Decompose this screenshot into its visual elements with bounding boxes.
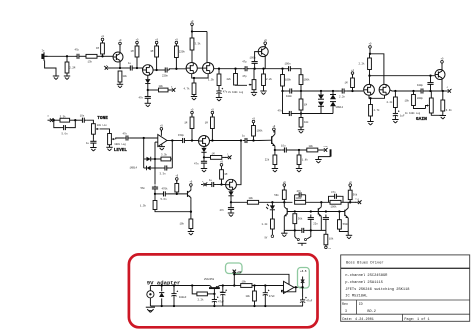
wire — [253, 136, 255, 141]
svg-text:4.7k: 4.7k — [184, 88, 191, 91]
svg-text:47uF: 47uF — [218, 301, 225, 304]
wire — [271, 229, 273, 235]
svg-text:10u: 10u — [281, 145, 286, 148]
resistor 3.3k — [161, 157, 171, 161]
wire — [283, 199, 285, 202]
wire — [81, 55, 86, 57]
wire — [310, 223, 312, 231]
wire — [302, 304, 304, 306]
capacitor 10u — [282, 147, 289, 152]
resistor 100k — [281, 75, 285, 87]
junction — [310, 229, 312, 231]
capacitor 100n — [288, 88, 294, 93]
svg-text:10k Lin: 10k Lin — [97, 124, 108, 127]
wire Q15 collector — [320, 202, 322, 207]
diode 1N914 — [330, 102, 336, 107]
junction — [155, 69, 157, 71]
wire — [191, 114, 193, 117]
svg-text:10k: 10k — [405, 100, 410, 103]
capacitor 3.3n — [163, 165, 170, 170]
resistor 56k — [282, 190, 286, 199]
wire — [235, 69, 237, 74]
wire — [154, 191, 156, 194]
svg-text:1M: 1M — [205, 122, 209, 125]
junction — [264, 305, 266, 307]
junction — [253, 305, 255, 307]
svg-text:2.2k: 2.2k — [266, 78, 273, 81]
wire — [192, 286, 197, 294]
resistor 1M — [211, 156, 222, 160]
svg-text:10k: 10k — [329, 238, 334, 241]
wire — [155, 193, 161, 195]
wire Q14 emitter — [283, 216, 285, 230]
svg-text:1M: 1M — [131, 50, 135, 53]
wire — [254, 286, 256, 292]
svg-text:56n: 56n — [141, 187, 146, 190]
wire — [92, 134, 94, 140]
wire +9 rail — [191, 27, 193, 31]
transistor Q14 — [284, 207, 287, 217]
+9V supply — [273, 125, 276, 132]
wire — [92, 145, 94, 148]
wire Q15 emitter — [320, 216, 322, 230]
wire — [119, 82, 121, 84]
+9V supply — [191, 108, 194, 115]
svg-text:10k: 10k — [123, 75, 128, 78]
wire — [176, 180, 178, 183]
wire — [413, 91, 415, 95]
svg-text:47p: 47p — [75, 49, 80, 52]
capacitor 56n — [152, 186, 158, 191]
transistor Q15 — [318, 207, 321, 217]
junction — [74, 119, 76, 121]
JFET Q9 switch — [199, 136, 210, 147]
resistor 10k — [241, 284, 252, 288]
wire — [298, 150, 300, 155]
wire — [221, 168, 223, 170]
svg-text:100k: 100k — [331, 205, 338, 208]
junction — [213, 293, 215, 295]
+9V supply — [190, 181, 193, 188]
wire — [154, 194, 156, 201]
wire feedback column — [171, 141, 173, 169]
svg-text:13k: 13k — [88, 61, 93, 64]
resistor 3.3k — [60, 118, 70, 122]
svg-text:JFETs 2SK246 switching 2SK118: JFETs 2SK246 switching 2SK118 — [345, 287, 409, 292]
wire 1M to drain — [156, 57, 158, 70]
resistor 2.2k — [394, 97, 398, 108]
ground — [201, 169, 207, 173]
svg-text:1M: 1M — [304, 104, 308, 107]
junction — [220, 183, 222, 185]
wire — [110, 67, 120, 69]
wire pot bottom — [431, 113, 443, 115]
junction — [349, 201, 351, 203]
junction — [301, 286, 303, 288]
potentiometer GAIN — [426, 98, 433, 113]
wire — [135, 67, 138, 69]
junction — [351, 90, 353, 92]
capacitor 1u — [209, 182, 216, 187]
+4.5V green highlight — [298, 268, 310, 289]
junction — [429, 75, 431, 77]
wire — [222, 286, 224, 291]
wire to Q7 drain — [370, 54, 384, 85]
junction — [300, 90, 302, 92]
junction — [191, 139, 193, 141]
svg-text:220k: 220k — [179, 51, 186, 54]
capacitor 47n — [330, 194, 341, 199]
wire to pot wiper — [236, 84, 248, 86]
resistor 2.2k — [368, 58, 372, 70]
resistor 1M — [135, 46, 139, 57]
junction — [294, 210, 296, 212]
wire — [282, 69, 284, 75]
wire — [329, 196, 331, 202]
junction — [271, 201, 273, 203]
wire — [369, 54, 371, 58]
junction — [338, 210, 340, 212]
wire — [300, 127, 302, 130]
ground — [281, 233, 287, 237]
wire — [300, 91, 302, 99]
wire — [271, 202, 273, 205]
capacitor 47n — [228, 206, 234, 212]
svg-text:47n: 47n — [194, 162, 199, 165]
resistor 2.2M — [65, 62, 69, 73]
junction — [230, 201, 232, 203]
junction — [253, 68, 255, 70]
+9V supply — [191, 20, 194, 27]
resistor 10k — [118, 71, 122, 82]
wire — [221, 179, 223, 184]
junction — [332, 90, 334, 92]
title block frame — [341, 255, 470, 321]
svg-text:47n: 47n — [123, 133, 128, 136]
wire — [339, 229, 348, 231]
wire — [148, 89, 159, 91]
op-amp IC1b — [284, 281, 295, 293]
svg-text:1u: 1u — [209, 179, 213, 182]
resistor 1.8k — [297, 155, 301, 165]
wire — [293, 69, 301, 75]
wire — [271, 210, 273, 219]
wire — [203, 152, 205, 157]
svg-text:10k: 10k — [246, 295, 251, 298]
svg-text:4.7k: 4.7k — [374, 109, 381, 112]
junction — [274, 149, 276, 151]
svg-text:22k: 22k — [265, 159, 270, 162]
resistor 56k — [348, 190, 352, 199]
net arrow A — [104, 66, 110, 70]
resistor 10k — [307, 148, 318, 152]
wire — [352, 74, 354, 78]
wire — [102, 41, 104, 43]
diode 1N914 — [318, 102, 324, 107]
resistor 10k — [253, 291, 257, 301]
svg-text:2.2k: 2.2k — [387, 101, 394, 104]
switch SW1 momentary — [297, 238, 306, 245]
+9V supply — [175, 175, 178, 182]
wire Q16 emitter — [347, 218, 349, 235]
wire feedback — [282, 287, 296, 292]
resistor 100k — [252, 126, 256, 137]
+9V supply flag — [233, 270, 236, 275]
+9V supply — [264, 39, 267, 46]
net arrow D — [356, 200, 362, 204]
svg-text:3.3k: 3.3k — [446, 109, 453, 112]
junction — [213, 305, 215, 307]
wire — [370, 116, 372, 121]
diode 1N914 — [147, 166, 151, 171]
wire — [230, 190, 232, 191]
wire — [192, 31, 207, 33]
+9V supply — [101, 35, 104, 42]
wire — [275, 149, 282, 151]
junction — [147, 89, 149, 91]
svg-text:VLA: VLA — [324, 145, 329, 148]
wire — [252, 285, 284, 287]
wire — [294, 224, 296, 231]
wire bottom rail — [305, 229, 326, 231]
wire — [161, 298, 163, 306]
wire — [211, 129, 213, 141]
svg-text:n-channel 2SC2458GR: n-channel 2SC2458GR — [345, 273, 388, 278]
wire — [282, 86, 284, 91]
svg-text:22k: 22k — [227, 78, 232, 81]
diode — [145, 79, 150, 83]
ground — [298, 130, 304, 134]
svg-text:3.3n: 3.3n — [160, 172, 167, 175]
svg-text:10n: 10n — [80, 114, 85, 117]
svg-text:p-channel 2SA1115: p-channel 2SA1115 — [345, 280, 383, 285]
wire — [274, 165, 276, 169]
junction — [53, 119, 55, 121]
wire — [144, 167, 147, 169]
wire mute drop — [236, 141, 241, 185]
JFET Q10 switch — [226, 179, 237, 190]
ground — [53, 76, 59, 80]
transistor Q13 — [272, 134, 275, 146]
svg-text:2.2k: 2.2k — [359, 63, 366, 66]
wire — [142, 68, 144, 70]
wire base rail — [287, 211, 345, 213]
+9V supply — [283, 181, 286, 188]
svg-text:5.6n: 5.6n — [161, 198, 168, 201]
wire diode return — [301, 113, 333, 115]
wire — [274, 150, 276, 155]
wire — [369, 70, 371, 76]
ground — [191, 97, 197, 101]
wire — [298, 165, 300, 169]
ground — [315, 160, 321, 164]
wire op-amp output — [167, 140, 180, 142]
ground — [106, 147, 112, 151]
wire Q16 collector — [347, 202, 349, 208]
svg-text:56k: 56k — [274, 194, 279, 197]
+9V supply — [441, 58, 444, 65]
svg-text:560k: 560k — [343, 223, 350, 226]
resistor 10k — [159, 88, 169, 92]
svg-text:47n: 47n — [220, 209, 225, 212]
wire — [218, 69, 220, 74]
wire — [97, 55, 113, 57]
svg-text:1M: 1M — [345, 82, 349, 85]
wire rail2 — [346, 90, 363, 92]
wire — [120, 67, 128, 69]
resistor 3.3k — [190, 38, 194, 50]
potentiometer TONE — [92, 124, 99, 135]
svg-text:47p: 47p — [242, 61, 247, 64]
wire — [222, 296, 224, 306]
wire — [230, 202, 232, 205]
net arrow D — [322, 148, 328, 152]
junction — [298, 149, 300, 151]
wire Q13 emitter — [274, 146, 276, 150]
svg-text:100uF: 100uF — [179, 296, 187, 299]
junction — [136, 67, 138, 69]
wire — [203, 157, 205, 159]
wire — [175, 44, 177, 46]
capacitor 47n — [124, 135, 130, 140]
capacitor 100p — [420, 88, 425, 93]
wire flipflop rail — [231, 201, 247, 203]
diode — [228, 191, 233, 195]
wire — [370, 98, 372, 104]
svg-text:TSA: TSA — [355, 198, 360, 201]
resistor 1.5k — [153, 201, 157, 210]
wire — [213, 303, 215, 306]
junction — [320, 201, 322, 203]
junction — [394, 90, 396, 92]
wire to Q5 base — [255, 52, 259, 60]
junction — [310, 210, 312, 212]
svg-text:10k: 10k — [159, 85, 164, 88]
wire — [300, 110, 302, 118]
svg-text:22n: 22n — [313, 223, 318, 226]
wire — [230, 196, 232, 203]
capacitor 220n — [163, 67, 169, 72]
svg-text:56k: 56k — [353, 194, 358, 197]
wire — [168, 89, 171, 91]
svg-text:1M: 1M — [96, 47, 100, 50]
junction — [154, 193, 156, 195]
wire — [320, 91, 322, 94]
junction — [320, 90, 322, 92]
svg-text:1u: 1u — [128, 62, 132, 65]
wire V+ — [160, 130, 162, 136]
wire — [191, 129, 193, 141]
net flag A out — [445, 89, 451, 93]
capacitor 100uF — [220, 289, 227, 296]
wire — [338, 212, 340, 220]
wire — [222, 156, 226, 158]
ground — [296, 169, 302, 173]
capacitor 22n — [308, 215, 314, 223]
capacitor 47n — [287, 111, 294, 116]
svg-text:5.6n: 5.6n — [62, 133, 69, 136]
capacitor 47n — [201, 160, 207, 165]
capacitor 100n — [286, 66, 292, 71]
transistor Q1 — [113, 52, 123, 62]
ground — [251, 92, 257, 96]
wire to TONE pot — [86, 120, 93, 124]
potentiometer LEVEL — [108, 134, 115, 145]
ground — [440, 116, 446, 120]
highlight red box — [129, 254, 318, 327]
wire Q5 collector — [264, 56, 266, 68]
wire Q6/Q7 sources — [369, 95, 385, 98]
wire to gain wiper — [414, 106, 426, 109]
svg-text:10k: 10k — [242, 281, 247, 284]
svg-text:3.3k: 3.3k — [60, 116, 67, 119]
svg-text:3.3k: 3.3k — [161, 154, 168, 157]
resistor 1M — [220, 170, 224, 179]
svg-text:ID: ID — [359, 302, 363, 306]
wire — [230, 212, 232, 213]
svg-text:100k: 100k — [304, 78, 311, 81]
svg-text:10k: 10k — [304, 121, 309, 124]
svg-text:150p: 150p — [178, 134, 185, 137]
wire Q5 emitter — [264, 44, 266, 46]
+9 supply flag — [325, 246, 328, 249]
+9V supply — [211, 108, 214, 115]
net arrow B — [170, 88, 176, 92]
wire RC loop — [69, 120, 76, 127]
junction — [191, 284, 193, 286]
wire Q2 drain — [153, 69, 163, 71]
+9V supply — [349, 181, 352, 188]
wire — [70, 119, 76, 121]
wire bottom rail — [150, 305, 303, 307]
wire to Q3 gate — [169, 69, 186, 70]
net flag B in — [48, 118, 54, 122]
svg-text:Boss Blues Driver: Boss Blues Driver — [346, 260, 384, 265]
wire rail — [259, 201, 293, 203]
svg-text:47n: 47n — [139, 97, 144, 100]
junction — [294, 229, 296, 231]
wire — [305, 195, 307, 201]
capacitor 22n — [323, 215, 329, 223]
junction — [203, 156, 205, 158]
resistor 10k — [247, 200, 258, 204]
svg-text:2SC2458: 2SC2458 — [204, 278, 215, 281]
resistor 1M — [101, 43, 105, 54]
wire — [253, 90, 255, 93]
wire — [66, 56, 68, 62]
svg-text:100p: 100p — [417, 84, 424, 87]
wire — [234, 285, 240, 287]
capacitor 47n — [295, 192, 306, 197]
ground — [367, 122, 373, 126]
junction — [368, 75, 370, 77]
wire — [193, 95, 195, 97]
+9V supply — [220, 161, 223, 168]
svg-text:Vm 100k Log: Vm 100k Log — [228, 91, 244, 94]
junction — [173, 284, 175, 286]
wire — [213, 294, 215, 297]
wire — [254, 301, 256, 306]
svg-text:1M: 1M — [224, 173, 228, 176]
junction — [171, 139, 173, 141]
svg-text:47n: 47n — [331, 191, 336, 194]
wire — [206, 184, 209, 186]
resistor 10k — [324, 234, 328, 245]
svg-text:2.2k: 2.2k — [198, 299, 205, 302]
resistor 1.2k — [271, 219, 275, 229]
diode 1N914 — [147, 157, 151, 162]
capacitor 47uF — [263, 290, 270, 297]
